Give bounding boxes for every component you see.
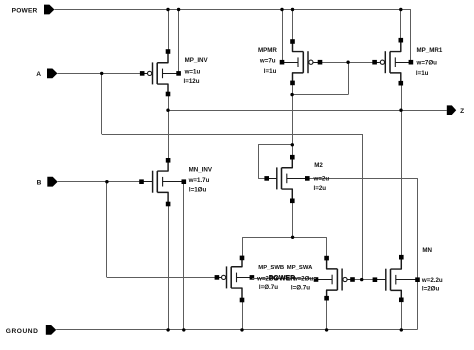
junction ground MN_INV source — [166, 328, 169, 331]
wire net A horizontal — [57, 73, 142, 75]
junction ground MN_INV bulk — [182, 328, 185, 331]
svg-text:w=7Øu: w=7Øu — [416, 59, 438, 66]
wire MP_SWA source to ground — [326, 298, 328, 330]
svg-text:l=1u: l=1u — [264, 68, 277, 75]
wire net A to switch gates — [362, 134, 364, 280]
junction on POWER at MP_MR1 drain — [399, 8, 402, 11]
svg-text:MP_SWA: MP_SWA — [287, 265, 313, 271]
svg-text:M2: M2 — [314, 162, 323, 169]
junction MPMR drain — [290, 93, 293, 96]
wire MP_SWB source to ground — [242, 300, 244, 330]
junction switch gate node — [360, 278, 363, 281]
junction on POWER at MP_INV drain — [166, 8, 169, 11]
svg-text:GROUND: GROUND — [6, 328, 39, 335]
wire M2 drain-gate loop — [259, 145, 293, 179]
wire MN_INV bulk to ground — [183, 182, 185, 330]
svg-text:POWER: POWER — [12, 7, 38, 14]
wire mirror gate down — [348, 62, 350, 94]
pin B — [47, 177, 57, 187]
svg-text:w=2u: w=2u — [313, 175, 330, 182]
wire net A across — [102, 134, 362, 136]
wire net B to MP_SWB gate — [107, 277, 217, 279]
wire MN source to ground — [401, 300, 403, 330]
junction ground MP_SWB — [240, 328, 243, 331]
svg-text:MN_INV: MN_INV — [189, 166, 213, 173]
wire POWER to MP_INV drain — [168, 10, 170, 52]
wire MPMR drain to M2 drain — [292, 83, 294, 157]
wire POWER to MPMR bulk — [282, 10, 284, 63]
wire MN gate line — [348, 279, 386, 281]
svg-text:l=Ø.7u: l=Ø.7u — [259, 284, 278, 291]
wire mirror gate to MPMR drain — [292, 94, 348, 96]
pin A — [47, 69, 57, 79]
transistor MP_MR1 — [390, 40, 401, 51]
wire switch top rail — [243, 238, 327, 259]
svg-text:B: B — [37, 179, 42, 186]
junction on POWER at MPMR bulk — [280, 8, 283, 11]
transistor MN_INV — [157, 160, 168, 171]
svg-text:MP_MR1: MP_MR1 — [417, 47, 443, 54]
junction on POWER at MPMR drain — [291, 8, 294, 11]
svg-text:w=2Øu: w=2Øu — [292, 276, 314, 283]
wire ground to M2 and MN bulk — [310, 179, 418, 330]
wire POWER to MP_INV bulk — [178, 10, 180, 74]
svg-text:l=2Øu: l=2Øu — [422, 286, 440, 293]
junction inverter output — [166, 109, 169, 112]
pin Z output — [447, 105, 456, 115]
wire POWER rail — [54, 9, 411, 11]
svg-text:w=2Øu: w=2Øu — [256, 275, 278, 282]
pin POWER — [44, 5, 54, 15]
junction node B — [105, 180, 108, 183]
junction node Z — [399, 109, 402, 112]
svg-text:w=1u: w=1u — [184, 69, 201, 76]
wire net A down — [101, 73, 103, 134]
junction node A — [100, 72, 103, 75]
junction on POWER at MP_INV bulk — [177, 8, 180, 11]
junction M2 drain — [291, 143, 294, 146]
svg-text:Z: Z — [460, 108, 464, 115]
svg-text:w=2.2u: w=2.2u — [421, 277, 443, 284]
transistor MP_SWB — [231, 258, 242, 267]
transistor MP_INV — [157, 52, 168, 63]
svg-text:w=1.7u: w=1.7u — [188, 177, 210, 184]
wire GROUND rail — [56, 329, 417, 331]
wire M2 source down — [292, 201, 294, 238]
wire net Z horizontal — [168, 110, 447, 112]
svg-text:A: A — [36, 71, 41, 78]
junction M2 source at switch rail — [291, 236, 294, 239]
wire net B horizontal — [58, 181, 142, 183]
wire net B down — [106, 182, 108, 278]
transistor MN — [391, 257, 402, 269]
wire MP_MR1 source to MN drain — [401, 83, 403, 257]
svg-text:MP_INV: MP_INV — [185, 57, 209, 64]
wire mirror gates — [320, 62, 375, 64]
junction mirror gate — [346, 61, 349, 64]
svg-text:l=2u: l=2u — [314, 185, 327, 192]
wire POWER to MPMR drain — [292, 10, 294, 42]
junction ground MN source — [400, 328, 403, 331]
svg-text:l=12u: l=12u — [184, 78, 200, 85]
junction ground MP_SWA — [325, 328, 328, 331]
svg-text:w=7u: w=7u — [259, 58, 276, 65]
wire POWER to MP_MR1 drain — [400, 10, 402, 41]
transistor MPMR — [293, 42, 304, 52]
wire MN_INV source to ground — [168, 204, 170, 330]
svg-text:MP_SWB: MP_SWB — [258, 265, 284, 271]
transistor M2 — [282, 157, 293, 168]
svg-text:l=1Øu: l=1Øu — [189, 186, 207, 193]
wire inverter output vertical — [168, 94, 170, 160]
transistor MP_SWA — [327, 258, 338, 269]
svg-text:l=Ø.7u: l=Ø.7u — [291, 284, 310, 291]
wire switch bulks tie — [252, 278, 316, 280]
svg-text:l=1u: l=1u — [416, 70, 429, 77]
svg-text:MN: MN — [422, 247, 432, 254]
svg-text:MPMR: MPMR — [258, 47, 277, 54]
pin GROUND — [46, 325, 56, 335]
